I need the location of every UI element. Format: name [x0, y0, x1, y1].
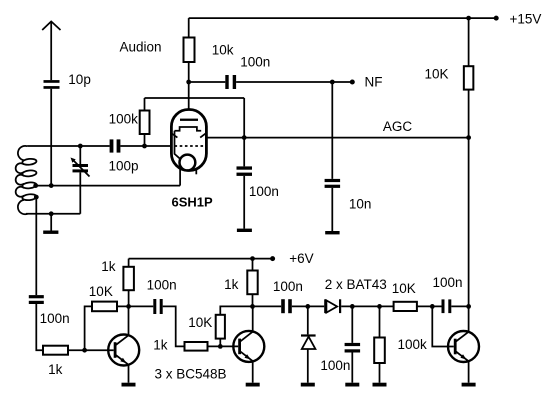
- node base junction T1: [82, 348, 87, 353]
- node ground junction: [49, 211, 54, 216]
- node anode junction: [186, 80, 191, 85]
- svg-text:100n: 100n: [40, 311, 70, 326]
- wire AGC drop to 100n: [243, 98, 245, 166]
- svg-text:100n: 100n: [320, 358, 350, 373]
- wire NF coupling: [189, 81, 226, 83]
- wire NF junction down to 10n: [331, 82, 333, 179]
- svg-text:100n: 100n: [249, 184, 279, 199]
- capacitor 100n (output coupling): [442, 299, 452, 313]
- capacitor 100n (detector coupling): [281, 299, 292, 313]
- resistor 1k (input): [43, 346, 114, 355]
- ground (shunt diode): [301, 383, 315, 387]
- tube heater stub: [195, 170, 197, 175]
- tube anode: [180, 119, 198, 121]
- wire 100n to 1k: [36, 304, 43, 350]
- node rail junction: [466, 16, 471, 21]
- resistor 100k (load): [374, 306, 385, 382]
- ground (screen bypass): [237, 176, 252, 232]
- node collector T3: [466, 304, 471, 309]
- node coil tap: [33, 183, 38, 188]
- diode BAT43 (shunt): [301, 306, 316, 382]
- svg-text:1k: 1k: [101, 259, 116, 274]
- wire coil bottom line: [26, 213, 80, 215]
- node coil lower tap: [34, 195, 39, 200]
- ground (filter cap): [345, 383, 359, 387]
- svg-text:100n: 100n: [240, 55, 270, 70]
- wire +15V rail: [189, 17, 496, 19]
- svg-text:Audion: Audion: [120, 40, 162, 55]
- terminal NF: [350, 80, 355, 85]
- capacitor 100n (input, bottom left): [29, 295, 44, 304]
- diode BAT43 (series): [324, 299, 341, 313]
- terminal +6V: [270, 256, 275, 261]
- inductor L (coil): [16, 146, 37, 214]
- wire base T3: [432, 306, 454, 346]
- capacitor 100n (screen bypass): [237, 166, 253, 176]
- svg-text:+6V: +6V: [289, 251, 313, 266]
- wire cathode tap line: [36, 185, 180, 187]
- node collector T1: [126, 304, 131, 309]
- ground (10n): [325, 188, 339, 235]
- node base junction T2: [218, 344, 223, 349]
- wire AGC line (tube g2 to right): [177, 137, 468, 139]
- svg-text:6SH1P: 6SH1P: [172, 194, 214, 209]
- ground (100k): [373, 383, 387, 387]
- resistor 10K (feedback T2): [216, 306, 282, 346]
- svg-text:10K: 10K: [425, 66, 449, 81]
- node filter cap junction: [350, 304, 355, 309]
- node 100k bottom junction: [142, 144, 147, 149]
- wire interstage to 1k: [163, 306, 185, 346]
- wire antenna to tap line: [50, 89, 52, 186]
- svg-text:100n: 100n: [147, 278, 177, 293]
- svg-text:10n: 10n: [349, 197, 372, 212]
- svg-text:1k: 1k: [224, 277, 239, 292]
- svg-text:AGC: AGC: [383, 119, 413, 134]
- tube cathode lead: [179, 159, 181, 186]
- tube cathode: [180, 155, 196, 171]
- resistor 10k (anode load): [184, 18, 195, 82]
- capacitor 10p: [44, 80, 60, 89]
- svg-text:1k: 1k: [48, 362, 63, 377]
- tube g1 control grid (dashed): [175, 145, 204, 147]
- transistor Q3 BC548B: [448, 331, 479, 383]
- tube g3 suppressor: [175, 127, 202, 159]
- ground (Q2 emitter): [246, 383, 260, 387]
- node antenna junction: [49, 183, 54, 188]
- svg-text:1k: 1k: [153, 337, 168, 352]
- wire cap to collector node: [451, 305, 468, 307]
- capacitor 10n: [325, 179, 341, 188]
- wire anode to tube: [188, 82, 190, 119]
- svg-text:10K: 10K: [392, 281, 416, 296]
- resistor 100k (grid leak): [140, 98, 150, 146]
- node base junction T3: [430, 304, 435, 309]
- svg-text:100k: 100k: [109, 111, 139, 126]
- svg-text:100p: 100p: [109, 158, 139, 173]
- tube g2 ticks: [171, 133, 206, 137]
- svg-text:100n: 100n: [273, 279, 303, 294]
- capacitor 100p: [110, 139, 121, 152]
- node varcap junction: [78, 144, 83, 149]
- svg-text:NF: NF: [365, 74, 383, 89]
- node collector T2: [250, 304, 255, 309]
- capacitor 100n (filter): [345, 306, 361, 382]
- ground (Q1 emitter): [122, 383, 136, 387]
- node shunt diode junction: [305, 304, 310, 309]
- resistor 10K (base T3): [394, 302, 442, 311]
- wire to shunt diode: [292, 305, 324, 307]
- node NF junction: [330, 80, 335, 85]
- variable capacitor: [71, 146, 90, 214]
- node AGC right junction: [466, 135, 471, 140]
- resistor 1k (collector load T2): [247, 259, 257, 307]
- node AGC/100n junction: [242, 135, 247, 140]
- wire base junction up: [85, 306, 92, 350]
- svg-text:10K: 10K: [89, 284, 113, 299]
- svg-text:2 x BAT43: 2 x BAT43: [325, 277, 387, 292]
- svg-text:10K: 10K: [188, 315, 212, 330]
- svg-text:3 x BC548B: 3 x BC548B: [155, 366, 227, 381]
- svg-text:10k: 10k: [212, 42, 234, 57]
- resistor 10K (screen feed): [464, 18, 474, 138]
- wire +6V rail: [129, 258, 273, 260]
- svg-text:10p: 10p: [68, 72, 91, 87]
- node +6V junction: [250, 256, 255, 261]
- wire to NF: [236, 81, 352, 83]
- svg-text:100n: 100n: [433, 275, 463, 290]
- wire coil tap down to 100n: [35, 197, 37, 295]
- svg-text:100k: 100k: [398, 337, 428, 352]
- wire AGC down right side: [468, 138, 470, 332]
- resistor 10K (feedback T1): [92, 302, 153, 312]
- capacitor 100n (NF coupling): [225, 75, 236, 89]
- transistor Q2 BC548B: [233, 306, 264, 382]
- wire after series diode: [341, 305, 393, 307]
- svg-text:+15V: +15V: [510, 12, 542, 27]
- wire 100k top to AGC drop: [145, 97, 245, 99]
- tube 6SH1P envelope: [171, 110, 206, 171]
- ground (Q3 emitter): [462, 383, 476, 387]
- resistor 1k (collector load T1): [123, 259, 133, 307]
- ground (coil): [43, 214, 58, 234]
- terminal +15V: [494, 16, 499, 21]
- capacitor 100n (interstage): [153, 299, 162, 314]
- transistor Q1 BC548B: [108, 306, 139, 382]
- wire grid line (coil top to tube g1): [27, 145, 110, 147]
- node 100k junction: [377, 304, 382, 309]
- antenna: [42, 21, 60, 80]
- resistor 1k (base T2): [185, 342, 239, 351]
